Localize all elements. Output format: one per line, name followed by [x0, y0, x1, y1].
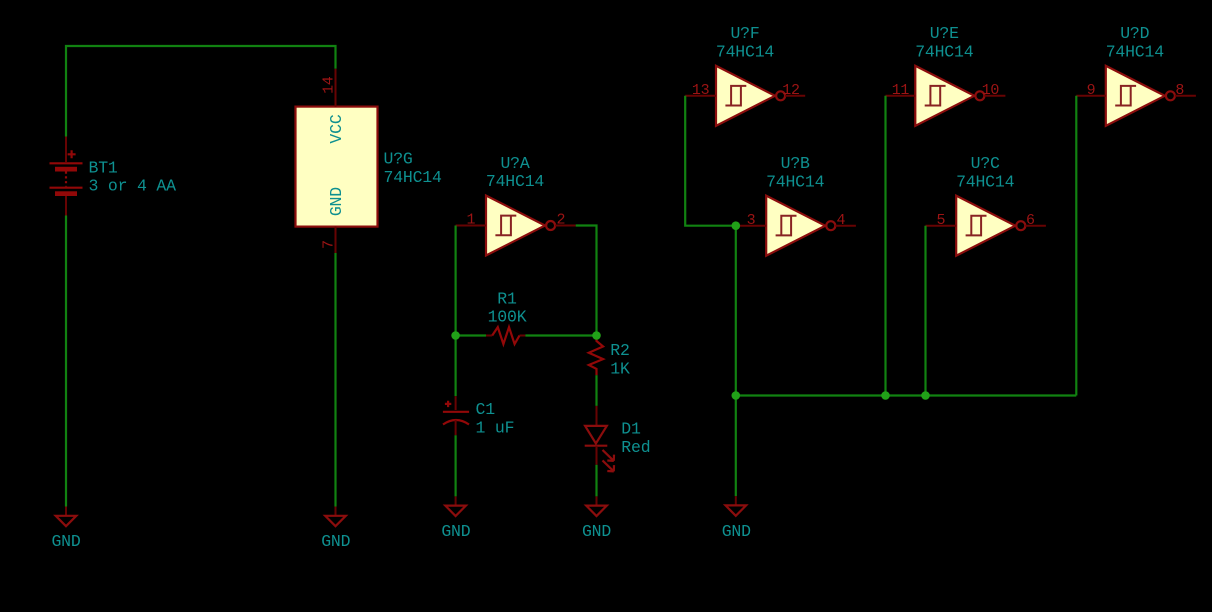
wire U?D input down to bus [1075, 96, 1077, 396]
svg-text:6: 6 [1026, 212, 1035, 229]
junction node F (bus / GND5) [732, 391, 741, 400]
svg-text:GND: GND [51, 532, 80, 551]
svg-text:74HC14: 74HC14 [384, 168, 443, 187]
svg-text:100K: 100K [488, 308, 527, 327]
svg-text:GND: GND [722, 522, 751, 541]
svg-text:7: 7 [321, 240, 338, 249]
wire VCC net: BT1 plus to U?G pin 14 [66, 46, 336, 137]
svg-text:1K: 1K [610, 359, 630, 378]
svg-text:U?C: U?C [971, 154, 1000, 173]
inverter U?A 74HC14 [456, 196, 576, 256]
svg-text:GND: GND [321, 532, 350, 551]
ground GND5 (unused inputs) [726, 496, 747, 516]
wire unused-input bus horizontal [736, 394, 1077, 396]
svg-text:C1: C1 [476, 400, 496, 419]
wire bus to GND5 [735, 396, 737, 497]
svg-text:11: 11 [892, 82, 910, 99]
wire D1 cathode to GND [595, 465, 597, 497]
wire R2 to D1 [595, 375, 597, 406]
resistor R2 [589, 339, 603, 375]
svg-text:74HC14: 74HC14 [766, 172, 825, 191]
junction node A (R1 left / C1) [451, 331, 460, 340]
wire U?C input down to bus [924, 226, 926, 396]
inverter U?B 74HC14 [736, 196, 856, 256]
ground GND4 (D1) [586, 496, 607, 516]
svg-text:3 or 4 AA: 3 or 4 AA [89, 177, 177, 196]
wire U?A input feedback left [455, 226, 457, 336]
svg-text:74HC14: 74HC14 [956, 172, 1015, 191]
wire node A to R1 [456, 334, 486, 336]
svg-text:VCC: VCC [327, 114, 346, 143]
ground GND1 (battery) [56, 507, 77, 527]
LED D1 [585, 406, 614, 472]
svg-text:Red: Red [621, 438, 650, 457]
svg-text:GND: GND [582, 522, 611, 541]
svg-text:5: 5 [936, 212, 945, 229]
svg-text:14: 14 [321, 76, 338, 94]
junction node E (bus / U?C input) [921, 391, 930, 400]
svg-text:BT1: BT1 [89, 158, 118, 177]
svg-text:R1: R1 [497, 289, 517, 308]
svg-text:74HC14: 74HC14 [1106, 42, 1165, 61]
svg-text:4: 4 [836, 212, 845, 229]
svg-text:74HC14: 74HC14 [486, 172, 545, 191]
svg-text:13: 13 [692, 82, 710, 99]
wire U?G pin7 to GND [334, 253, 336, 507]
junction node B (R1 right / R2) [592, 331, 601, 340]
svg-text:2: 2 [557, 212, 566, 229]
svg-text:1: 1 [466, 212, 475, 229]
wire U?A output to R1/R2 [576, 226, 597, 336]
svg-text:3: 3 [747, 212, 756, 229]
battery BT1 [50, 137, 83, 216]
capacitor C1 [443, 396, 469, 435]
svg-text:U?B: U?B [781, 154, 810, 173]
wire node C down to GND bus [735, 226, 737, 396]
svg-text:74HC14: 74HC14 [915, 42, 974, 61]
ground GND2 (U?G) [325, 507, 346, 527]
svg-text:U?G: U?G [384, 150, 413, 169]
ground GND3 (C1) [445, 496, 466, 516]
svg-text:U?D: U?D [1120, 24, 1149, 43]
svg-text:U?A: U?A [500, 154, 529, 173]
wire C1 to GND [455, 435, 457, 496]
svg-text:8: 8 [1175, 82, 1184, 99]
inverter U?C 74HC14 [926, 196, 1046, 256]
wire BT1 minus to GND [65, 216, 67, 507]
svg-text:12: 12 [782, 82, 799, 99]
wire R1 to node B [525, 334, 596, 336]
junction node C (U?B pin 3) [732, 221, 741, 230]
wire node A to C1 [455, 336, 457, 397]
svg-text:D1: D1 [621, 420, 641, 439]
inverter U?F 74HC14 [685, 66, 805, 126]
wire U?F input down to U?B input [685, 96, 736, 226]
svg-text:74HC14: 74HC14 [716, 42, 775, 61]
resistor R1 [486, 335, 525, 337]
inverter U?E 74HC14 [886, 66, 1006, 126]
wire U?E input down to bus [884, 96, 886, 396]
inverter U?D 74HC14 [1076, 66, 1196, 126]
svg-text:GND: GND [327, 187, 346, 216]
svg-text:GND: GND [441, 522, 470, 541]
svg-text:10: 10 [982, 82, 1000, 99]
svg-text:R2: R2 [610, 341, 629, 360]
svg-text:9: 9 [1087, 82, 1096, 99]
junction node D (bus / U?E input) [881, 391, 890, 400]
power unit U?G 74HC14 [296, 69, 378, 253]
svg-text:U?F: U?F [730, 24, 759, 43]
svg-text:1 uF: 1 uF [476, 418, 515, 437]
svg-text:U?E: U?E [930, 24, 959, 43]
